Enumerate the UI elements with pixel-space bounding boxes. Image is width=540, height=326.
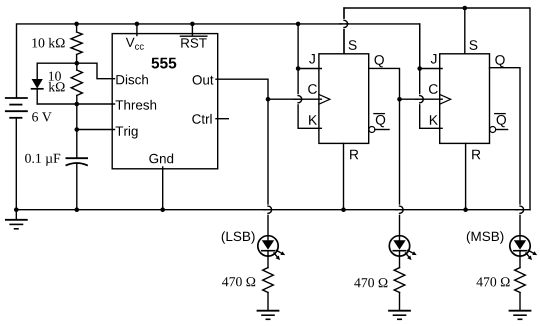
LED D3 <box>389 236 416 268</box>
wire S line top <box>344 8 530 210</box>
wire ground rail <box>16 209 530 211</box>
label Q U2 <box>375 55 384 67</box>
LED D4 <box>510 236 537 268</box>
clock triangle U2 <box>319 94 330 104</box>
label 10 kOhm <box>32 38 64 48</box>
junction: Q1 / U3 clock / LED D3 branch <box>397 97 402 102</box>
label Thresh <box>116 100 157 110</box>
pin Vcc <box>136 24 138 36</box>
junction: S line / U3 S pin <box>463 6 468 11</box>
label Disch <box>116 75 147 85</box>
label C U2 <box>308 84 317 94</box>
wire J-K tie U3 <box>420 24 442 128</box>
label 470 Ohm ch2 <box>222 277 255 286</box>
wire Disch node <box>37 63 114 78</box>
wire Qbar stub U3 <box>496 129 508 131</box>
label R U3 <box>472 150 480 160</box>
wire hop: LED D2 wire over ground rail <box>264 206 272 213</box>
pin R wire U2 <box>343 143 345 209</box>
label Vcc <box>126 38 135 47</box>
junction: ground rail / U3 R <box>463 207 468 212</box>
label 6 V <box>32 112 51 121</box>
pin S wire U2 <box>343 8 345 54</box>
label Qbar U2 <box>376 115 385 127</box>
label J U3 <box>431 54 437 64</box>
wire hop: LED D3 wire over ground rail <box>395 206 403 213</box>
junction: R1/R2/D1/Disch node <box>75 61 80 66</box>
resistor R2 10 kOhm <box>71 63 82 104</box>
wire node to cap <box>76 104 78 158</box>
junction: Vcc rail / U2 J-K tie <box>296 22 301 27</box>
wire C input U3 <box>400 98 443 100</box>
label 555 <box>152 58 177 69</box>
label J U2 <box>309 54 315 64</box>
label C U3 <box>429 84 438 94</box>
pin Ctrl stub <box>216 118 228 120</box>
wire J input U3 <box>420 68 442 70</box>
junction: ground rail / U1 Gnd <box>160 207 165 212</box>
LED D2 <box>258 236 285 268</box>
label LSB <box>222 231 255 244</box>
pin Out wire <box>216 79 268 236</box>
wire Qbar stub U2 <box>375 129 389 131</box>
ground ch2 <box>258 311 279 320</box>
label K U2 <box>309 115 317 125</box>
junction: Trig node <box>75 127 80 132</box>
junction: Vcc rail / R1 <box>74 22 79 27</box>
junction: Out / clock branch <box>266 97 271 102</box>
resistor R1 10 kOhm <box>71 24 82 63</box>
resistor 470 Ohm ch4 <box>515 268 526 311</box>
junction: U2 J input <box>296 66 301 71</box>
label Ctrl <box>192 114 211 124</box>
wire J-K tie U2 <box>298 24 321 128</box>
pin RST <box>191 24 193 36</box>
output Qbar bubble U2 <box>369 127 375 133</box>
wire hop: U3 J-K tie over clock wire <box>416 96 424 103</box>
label S U3 <box>469 40 477 50</box>
clock triangle U3 <box>440 94 451 104</box>
label RST <box>181 38 206 48</box>
resistor 470 Ohm ch2 <box>263 268 274 311</box>
junction: Vcc rail / U1 Vcc pin <box>135 22 140 27</box>
junction: ground rail / battery <box>14 207 19 212</box>
label MSB <box>467 231 504 244</box>
pin Gnd <box>162 167 164 210</box>
flip-flop U3 box <box>440 54 490 144</box>
label 0.1 uF <box>25 154 60 166</box>
flip-flop U2 box <box>319 54 369 144</box>
pin S wire U3 <box>464 8 466 54</box>
label Q U3 <box>495 55 504 67</box>
capacitor C1 0.1 uF <box>66 158 87 210</box>
label Out <box>193 75 214 85</box>
label R U2 <box>350 150 358 160</box>
output Qbar bubble U3 <box>490 127 496 133</box>
label Qbar U3 <box>497 115 506 127</box>
label 10 kOhm R2 <box>49 72 61 81</box>
label 470 Ohm ch4 <box>477 277 510 286</box>
wire Q2 to LED3 MSB <box>490 68 521 236</box>
ground ch3 <box>389 311 410 320</box>
label S U2 <box>349 40 357 50</box>
op-amp U1 555 timer box <box>112 34 218 169</box>
wire hop: LED D4 wire over ground rail <box>516 206 524 213</box>
diode D1 <box>32 63 43 104</box>
wire Q1 to FF2 clock and LED2 <box>369 68 400 235</box>
junction: Thresh node <box>75 102 80 107</box>
wire clock line to FF1 C <box>268 98 321 100</box>
label Trig <box>116 126 138 139</box>
wire Vcc top rail <box>17 24 420 98</box>
wire hop: U2 S wire over Vcc rail <box>340 20 348 27</box>
label K U3 <box>430 115 438 125</box>
ground battery <box>6 210 27 229</box>
wire J input U2 <box>298 68 321 70</box>
pin R wire U3 <box>465 143 467 209</box>
label Gnd <box>149 154 173 164</box>
junction: Vcc rail / U1 RST pin <box>190 22 195 27</box>
ground ch4 <box>510 311 531 320</box>
resistor 470 Ohm ch3 <box>394 268 405 311</box>
battery 6V <box>6 98 27 210</box>
junction: ground rail / U2 R <box>341 207 346 212</box>
junction: U3 J input <box>417 66 422 71</box>
wire hop: U2 J-K tie over clock wire <box>294 96 302 103</box>
wire Thresh <box>37 103 114 105</box>
label 470 Ohm ch3 <box>354 278 387 287</box>
wire Trig <box>77 129 115 131</box>
junction: ground rail / C1 <box>75 207 80 212</box>
